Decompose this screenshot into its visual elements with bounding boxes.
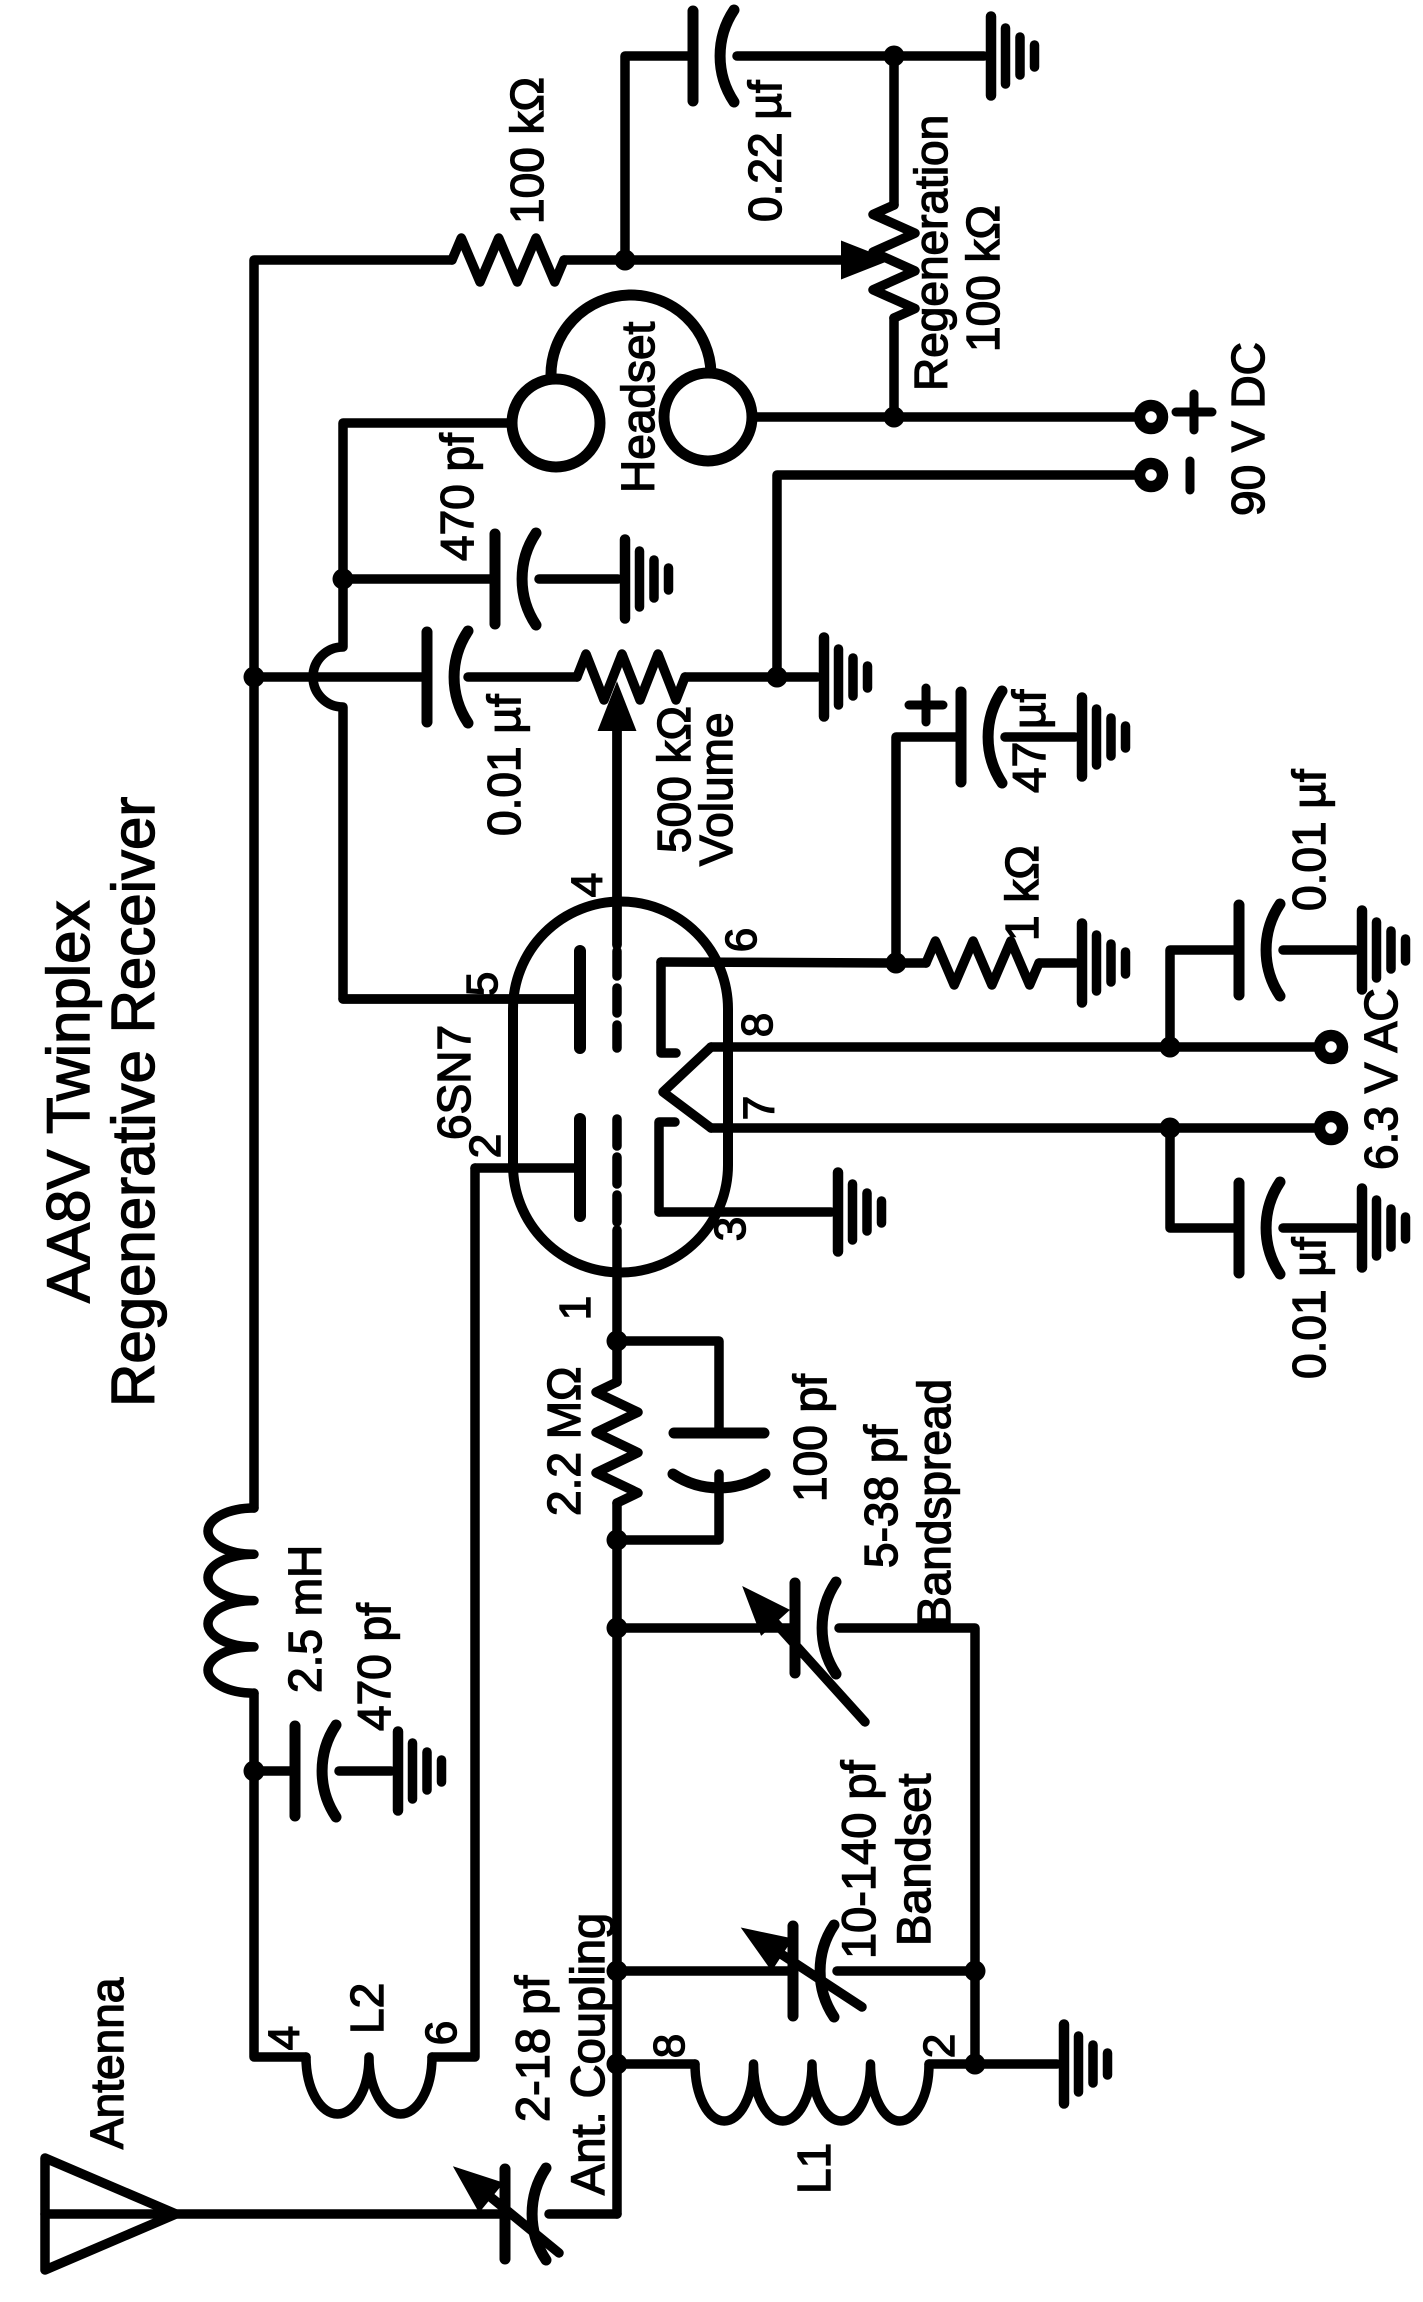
terminal 6.3VAC upper [1320,1036,1343,1059]
wire B+ top rail corner to 100k resistor [254,260,452,1508]
tube grid dashes triode 2 (pin 4) [612,727,622,945]
plus sign 47uf [909,701,943,710]
wire bandspread to line B [839,1628,975,2064]
tube cathode triode 1 (pin 3) [659,1122,675,1212]
terminal -90V [1140,464,1163,487]
wire heater cap lower to ground [1283,1223,1355,1233]
svg-text:100 kΩ: 100 kΩ [501,77,553,224]
node regen pot bottom junction [884,407,905,428]
svg-text:Bandspread: Bandspread [908,1379,960,1627]
inductor RFC 2.5 mH choke [208,1508,254,1693]
node grid leak bottom [607,1530,628,1551]
svg-text:5: 5 [458,972,507,996]
bandset arrow [781,1954,862,2007]
resistor R4 1 kOhm [926,941,1039,985]
ground for heater cap lower [1357,1189,1368,1268]
resistor R1 100 kOhm [452,238,564,282]
tube plate bar triode 1 (pin 2) [574,1119,586,1216]
ground for volume pot [819,638,830,717]
wire volume right junction to ground [777,672,817,682]
capacitor C10 470 pf bottom [290,1726,301,1816]
svg-text:100 pf: 100 pf [784,1374,836,1502]
svg-text:6SN7: 6SN7 [428,1025,480,1140]
tube V1 6SN7 envelope [513,902,728,1273]
svg-text:4: 4 [563,873,612,897]
wire pin 7 heater row [711,1123,1315,1133]
svg-text:Ant. Coupling: Ant. Coupling [561,1913,614,2195]
capacitor C5 0.01 uf heater upper [1234,905,1245,995]
svg-text:47 µf: 47 µf [1003,690,1055,793]
node volume row left junction [244,667,265,688]
capacitor C4 47 uf [956,692,967,782]
antenna symbol [45,2158,176,2270]
potentiometer R3 Volume 500 kOhm [577,654,685,700]
capacitor C1 0.22 uf [688,11,699,101]
svg-text:Bandset: Bandset [887,1774,940,1946]
svg-text:1 kΩ: 1 kΩ [996,845,1048,941]
svg-text:2: 2 [461,1134,510,1158]
node bandset junction B [965,1961,986,1982]
tube cathode triode 2 (pin 6) [661,962,676,1053]
svg-text:6.3 V AC: 6.3 V AC [1355,988,1407,1170]
svg-text:Regenerative Receiver: Regenerative Receiver [100,797,167,1407]
ground for L1 [1059,2025,1070,2104]
node 1k / 47uf junction [886,953,907,974]
wire 100k to junction [564,255,625,265]
wire 470pf branch [343,574,495,584]
plus sign 90V [1176,408,1212,417]
svg-text:0.01 µf: 0.01 µf [1283,1237,1335,1379]
wire L2 right lead up to pin 2 [432,1168,475,2057]
ground for heater cap upper [1357,911,1368,990]
wire headset right to +90V terminal [752,412,1134,422]
svg-text:470 pf: 470 pf [431,433,483,561]
node pin8 bypass junction [1160,1037,1181,1058]
ground for 0.22uf / regen pot [986,17,997,96]
svg-text:L2: L2 [341,1983,393,2034]
svg-text:100 kΩ: 100 kΩ [957,205,1009,352]
svg-text:0.22 µf: 0.22 µf [739,80,791,222]
capacitor C8 bandspread 5-38 pf [790,1583,801,1673]
svg-text:1: 1 [551,1296,600,1320]
minus sign 90V [1186,461,1195,490]
wire volume pot right lead [685,672,777,682]
svg-text:4: 4 [260,2026,309,2050]
capacitor C3 0.01 uf coupling [422,632,433,722]
wire L1 right lead [929,2059,975,2069]
svg-text:3: 3 [706,1217,755,1241]
wire bandset to line B [837,1966,975,1976]
resistor R5 2.2 MOhm grid leak [612,1341,622,1382]
wire coupling cap to grid line [549,2209,617,2219]
svg-text:0.01 µf: 0.01 µf [1283,769,1335,911]
wire regen pot top lead [889,56,899,205]
svg-text:Regeneration: Regeneration [905,115,957,391]
tube grid dashes triode 1 (pin 1) [612,1119,622,1224]
wire pin 6 lead to 1k junction [661,962,896,963]
potentiometer R2 Regeneration 100 kOhm [873,205,915,318]
antenna coupling arrow [491,2197,559,2253]
wire 47uf branch [896,737,957,963]
wire headset left to plate branch [343,423,512,579]
wire bandset row [617,1966,793,1976]
svg-text:6: 6 [417,2021,466,2045]
svg-text:8: 8 [645,2034,694,2058]
wire pin8 bypass branch [1170,950,1235,1047]
volume wiper arrow to pin 4 [612,730,622,945]
wire heater cap upper to ground [1283,945,1355,955]
wire pin 3 lead to ground [659,1207,831,1217]
wire 47uf to ground [1005,732,1075,742]
wire pin 8 heater row [711,1042,1315,1052]
capacitor C6 0.01 uf heater lower [1234,1183,1245,1273]
node pin7 bypass junction [1160,1118,1181,1139]
tube heater chevron [663,1047,711,1128]
ground for 1k resistor [1077,924,1088,1003]
node regen top junction [884,46,905,67]
svg-text:2.2 MΩ: 2.2 MΩ [538,1367,590,1516]
capacitor C9 bandset 10-140 pf [788,1926,799,2016]
svg-text:7: 7 [735,1096,784,1120]
svg-text:90 V DC: 90 V DC [1222,342,1274,516]
wire L1 row to ground [975,2059,1057,2069]
wire grid line down [612,1540,622,2214]
headset headband arc [551,295,711,377]
wire pin 5 lead to plate [343,994,577,1004]
wire volume row to coupling cap [254,672,427,682]
svg-text:8: 8 [733,1013,782,1037]
svg-text:Antenna: Antenna [81,1977,133,2149]
wire choke to L2 [254,1693,306,2057]
regen wiper arrow [625,255,842,265]
wire 470pf cap to ground [539,574,618,584]
node junction 100k / 0.22uf / regen wiper [615,250,636,271]
wire coupling cap to volume pot [468,672,577,682]
svg-text:Headset: Headset [612,321,664,493]
terminal 6.3VAC lower [1320,1117,1343,1140]
node volume right junction [767,667,788,688]
wire 100pf parallel loop top [617,1341,719,1433]
ground for 470pf top [620,540,631,619]
svg-text:5-38 pf: 5-38 pf [855,1425,907,1568]
wire 100pf loop bottom [617,1474,719,1540]
wire regen pot bottom lead [889,318,899,417]
ground for 47uf [1077,698,1088,777]
ground for 470pf bottom [393,1732,404,1811]
wire 470pf bottom to ground [339,1766,391,1776]
svg-text:10-140 pf: 10-140 pf [832,1759,885,1959]
headset earpiece right [664,373,752,461]
node choke bypass junction [244,1761,265,1782]
wire regen top junction to ground [894,51,984,61]
node L1 left junction [607,2054,628,2075]
node bandspread junction [607,1618,628,1639]
tube plate bar triode 2 (pin 5) [574,951,586,1048]
wire bandspread row [617,1623,795,1633]
capacitor C7 100 pf [674,1428,764,1439]
bandspread arrow [775,1622,865,1722]
wire pin7 bypass branch [1170,1128,1235,1228]
node grid leak top [607,1331,628,1352]
svg-text:6: 6 [717,928,766,952]
svg-text:L1: L1 [788,2143,840,2194]
node 470pf top junction [333,569,354,590]
headset earpiece left [512,379,600,467]
wire 470pf bottom row [254,1766,295,1776]
inductor L1 [695,2064,929,2121]
svg-text:Volume: Volume [690,713,742,866]
wire 0.22uf to regen-top junction [737,51,894,61]
svg-text:2-18 pf: 2-18 pf [506,1975,559,2122]
wire antenna feed line [45,2209,505,2219]
ground for pin 3 cathode [833,1173,844,1252]
svg-text:2.5 mH: 2.5 mH [279,1545,331,1693]
wire plate line with hop over volume row [313,579,577,999]
node bandset junction A [607,1961,628,1982]
svg-text:0.01 µf: 0.01 µf [478,694,530,836]
wire junction up to 0.22uf cap [625,56,689,260]
wire 1k lead [896,958,926,968]
capacitor C2 470 pf top [490,534,501,624]
wire 1k to ground [1039,958,1075,968]
wire L1 left lead [617,2059,695,2069]
wire pin 2 lead [475,1163,577,1173]
node L1 top junction B [965,2054,986,2075]
wire -90V terminal to volume-right junction [777,475,1134,677]
terminal +90V [1140,406,1163,429]
svg-text:470 pf: 470 pf [348,1603,400,1731]
svg-text:2: 2 [915,2034,964,2058]
inductor L2 [306,2057,432,2114]
capacitor C11 antenna coupling 2-18 pf [500,2169,511,2259]
svg-text:AA8V Twinplex: AA8V Twinplex [35,901,102,1303]
